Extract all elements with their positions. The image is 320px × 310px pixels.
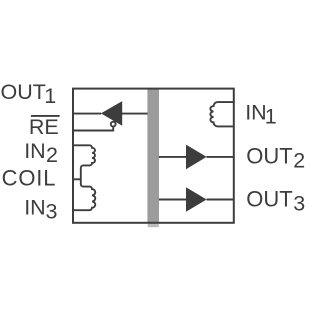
- svg-text:1: 1: [265, 104, 277, 128]
- svg-text:OUT: OUT: [246, 186, 292, 211]
- svg-text:3: 3: [293, 191, 305, 215]
- buffer U2 (OUT2 driver, points right): [186, 145, 207, 170]
- wire: RE enable from body edge to bubble: [73, 127, 113, 130]
- svg-text:IN: IN: [24, 196, 46, 220]
- buffer U3 (OUT3 driver, points right): [186, 187, 207, 212]
- enable bubble on buffer U1: [111, 122, 116, 127]
- svg-text:2: 2: [293, 149, 305, 173]
- wire: OUT2 from barrier to buffer U2: [159, 156, 187, 158]
- svg-text:2: 2: [46, 143, 58, 167]
- isolation barrier: [147, 89, 159, 222]
- coil L1 (IN2 to COIL tap) and coil L2 (COIL tap to IN3) with connecting wires: [73, 145, 95, 210]
- wire: OUT3 from buffer U3 to body edge: [207, 199, 234, 201]
- component body: [73, 89, 234, 223]
- wire: OUT2 from buffer U2 to body edge: [207, 156, 234, 158]
- svg-text:IN: IN: [245, 101, 267, 125]
- wire: OUT1 from body edge to buffer U1 tip: [73, 113, 101, 115]
- wire: buffer U1 input from isolation barrier: [122, 113, 148, 115]
- svg-text:RE: RE: [29, 115, 59, 139]
- svg-text:1: 1: [44, 84, 56, 108]
- svg-text:COIL: COIL: [2, 166, 57, 191]
- buffer U1 (OUT1 driver, points left): [101, 101, 122, 126]
- svg-text:OUT: OUT: [246, 144, 292, 169]
- svg-text:OUT: OUT: [1, 80, 46, 104]
- overline of RE: [31, 115, 60, 117]
- svg-text:3: 3: [46, 200, 58, 224]
- barrier shadow stub below body: [148, 224, 159, 228]
- coil L3 (IN1) connected to right body edge: [210, 102, 233, 126]
- svg-text:IN: IN: [24, 139, 46, 163]
- wire: COIL center tap from body edge: [73, 178, 81, 180]
- wire: OUT3 from barrier to buffer U3: [159, 199, 187, 201]
